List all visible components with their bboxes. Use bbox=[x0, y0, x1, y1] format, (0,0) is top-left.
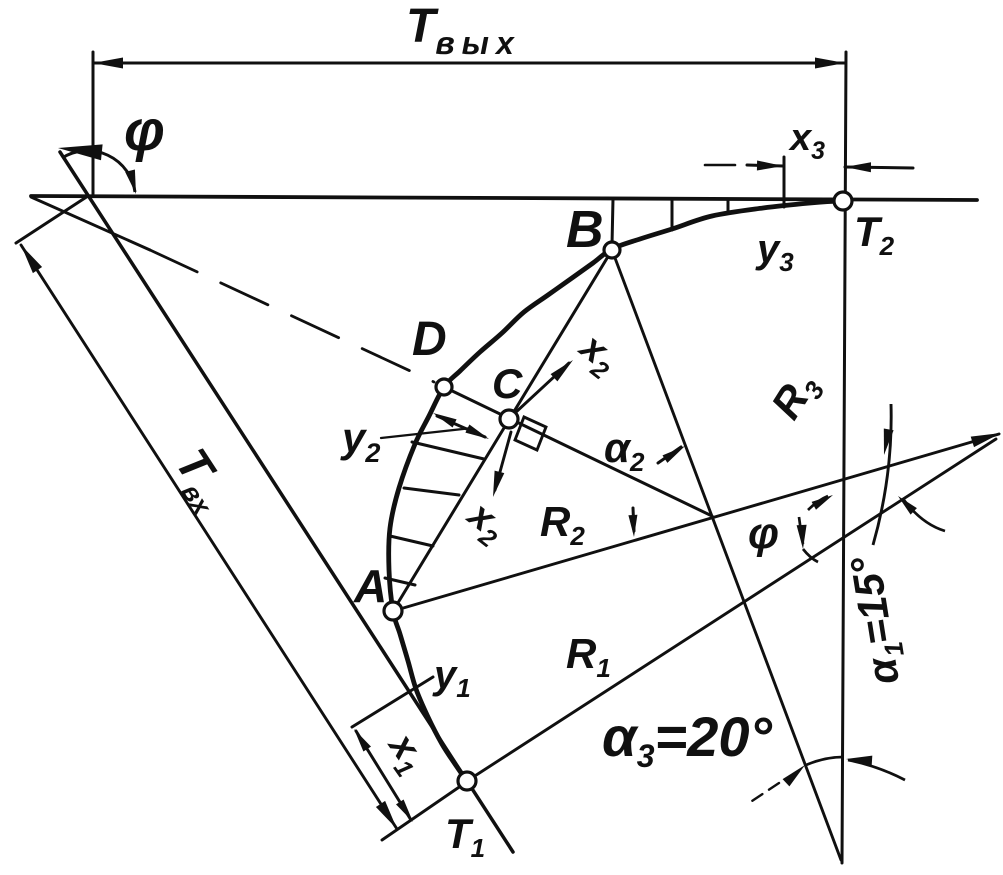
x3 left shaft bbox=[747, 165, 783, 166]
alpha2 lower arrowhead bbox=[628, 515, 637, 537]
T_out left arrowhead bbox=[93, 58, 123, 69]
svg-text:A: A bbox=[353, 560, 387, 612]
y2 double arrow shaft bbox=[437, 416, 485, 437]
y1 tick line bbox=[352, 677, 433, 727]
x3 right shaft bbox=[845, 167, 913, 168]
svg-text:y1: y1 bbox=[432, 653, 471, 703]
svg-text:φ: φ bbox=[124, 98, 165, 163]
alpha3 left arrowhead bbox=[783, 765, 805, 786]
x2 negative axis shaft bbox=[495, 432, 511, 490]
svg-text:C: C bbox=[492, 360, 523, 407]
x1 dimension line bbox=[356, 731, 411, 820]
svg-text:x3: x3 bbox=[788, 117, 825, 165]
alpha2 arrow shaft bbox=[658, 447, 681, 463]
point C bbox=[500, 410, 518, 428]
phi arc lower arrowhead bbox=[125, 170, 136, 195]
alpha3 dashed leader bbox=[752, 783, 779, 801]
phi right upper arrowhead bbox=[812, 495, 833, 510]
radius line A-O1 bbox=[393, 434, 999, 611]
arrowhead at O1 bbox=[971, 433, 1001, 447]
x3 left arrowhead bbox=[757, 161, 783, 171]
svg-text:α2: α2 bbox=[604, 424, 645, 477]
svg-text:R1: R1 bbox=[566, 630, 611, 683]
dashed segment of D radius line bbox=[150, 250, 434, 382]
hatch stroke 2 bbox=[404, 488, 459, 495]
x3 right arrowhead bbox=[845, 162, 871, 172]
alpha1 lower arrowhead bbox=[898, 496, 917, 515]
chord A-B bbox=[393, 250, 612, 611]
dimension line T_out bbox=[93, 62, 845, 65]
x3 tick line bbox=[783, 157, 786, 207]
point D bbox=[436, 379, 452, 395]
hatch stroke 4 bbox=[385, 578, 415, 585]
alpha3 arc between lines bbox=[806, 757, 843, 765]
T_in top arrowhead bbox=[21, 245, 42, 273]
x2 positive arrowhead bbox=[551, 360, 573, 381]
x2 negative arrowhead bbox=[493, 471, 504, 497]
point T1 bbox=[458, 772, 476, 790]
alpha3 right arrowhead bbox=[846, 756, 872, 766]
svg-text:x2: x2 bbox=[455, 493, 514, 554]
svg-text:x2: x2 bbox=[567, 325, 626, 386]
y2 arrowhead toward C bbox=[465, 425, 489, 440]
svg-text:Tвых: Tвых bbox=[406, 0, 521, 61]
alpha3 right tail bbox=[848, 760, 905, 780]
svg-text:B: B bbox=[566, 201, 604, 259]
svg-text:y3: y3 bbox=[755, 227, 794, 277]
phi right lower arrowhead bbox=[797, 525, 807, 549]
input tangent line bbox=[60, 152, 513, 852]
y2 leader line bbox=[381, 428, 472, 438]
phi arc top-left bbox=[62, 151, 135, 192]
alpha2 upper arrowhead bbox=[663, 446, 686, 463]
horizontal tangent line bbox=[31, 196, 977, 200]
T_out right arrowhead bbox=[815, 58, 845, 69]
x3 left leader dashes bbox=[705, 164, 747, 167]
phi right lower arrow shaft bbox=[799, 517, 818, 562]
alpha1 upper arrowhead bbox=[884, 429, 894, 456]
alpha1 arc stroke bbox=[873, 404, 891, 545]
svg-text:R2: R2 bbox=[540, 498, 585, 551]
radius line T1-O1 bbox=[467, 439, 996, 781]
svg-text:α1=15°: α1=15° bbox=[841, 551, 914, 687]
radius line D to O2 bbox=[444, 387, 712, 516]
right angle square at C bbox=[515, 417, 546, 450]
svg-text:R3: R3 bbox=[762, 363, 831, 430]
svg-text:D: D bbox=[412, 313, 447, 366]
svg-text:α3=20°: α3=20° bbox=[602, 705, 773, 774]
dimension line T_in bbox=[21, 245, 397, 829]
ordinate tick 3 bbox=[727, 200, 730, 211]
hatch stroke 1 bbox=[412, 442, 484, 459]
radius line B-O3 bbox=[612, 250, 841, 860]
phi arc big arrowhead bbox=[58, 144, 103, 160]
T_in bottom arrowhead bbox=[376, 801, 397, 829]
svg-text:φ: φ bbox=[748, 509, 779, 558]
hatch stroke 3 bbox=[390, 536, 433, 546]
junction perpendicular extension bbox=[16, 196, 88, 243]
vertical radius line R3 (T2-O3) bbox=[842, 52, 846, 863]
alpha1 lower arrow tail bbox=[904, 500, 945, 531]
x1 top arrowhead bbox=[354, 729, 371, 752]
tangent-point D radius line solid start bbox=[31, 197, 150, 250]
point B bbox=[604, 242, 620, 258]
y2 arrowhead toward D bbox=[433, 413, 457, 428]
svg-text:T2: T2 bbox=[854, 208, 895, 261]
svg-text:y2: y2 bbox=[340, 414, 380, 468]
alpha2 lower arrow shaft bbox=[633, 508, 634, 531]
phi right upper arrow shaft bbox=[808, 496, 828, 510]
point A bbox=[384, 602, 402, 620]
left extension line bbox=[92, 52, 95, 196]
svg-text:T1: T1 bbox=[445, 810, 485, 863]
perpendicular at T1 bbox=[382, 781, 468, 840]
x1 bottom arrowhead bbox=[396, 800, 413, 823]
ordinate tick 2 bbox=[671, 199, 674, 230]
main transition curve T1-A-D-B-T2 bbox=[389, 201, 843, 781]
x2 positive axis shaft bbox=[515, 363, 569, 413]
point T2 bbox=[834, 192, 852, 210]
ordinate tick at B bbox=[612, 199, 613, 245]
